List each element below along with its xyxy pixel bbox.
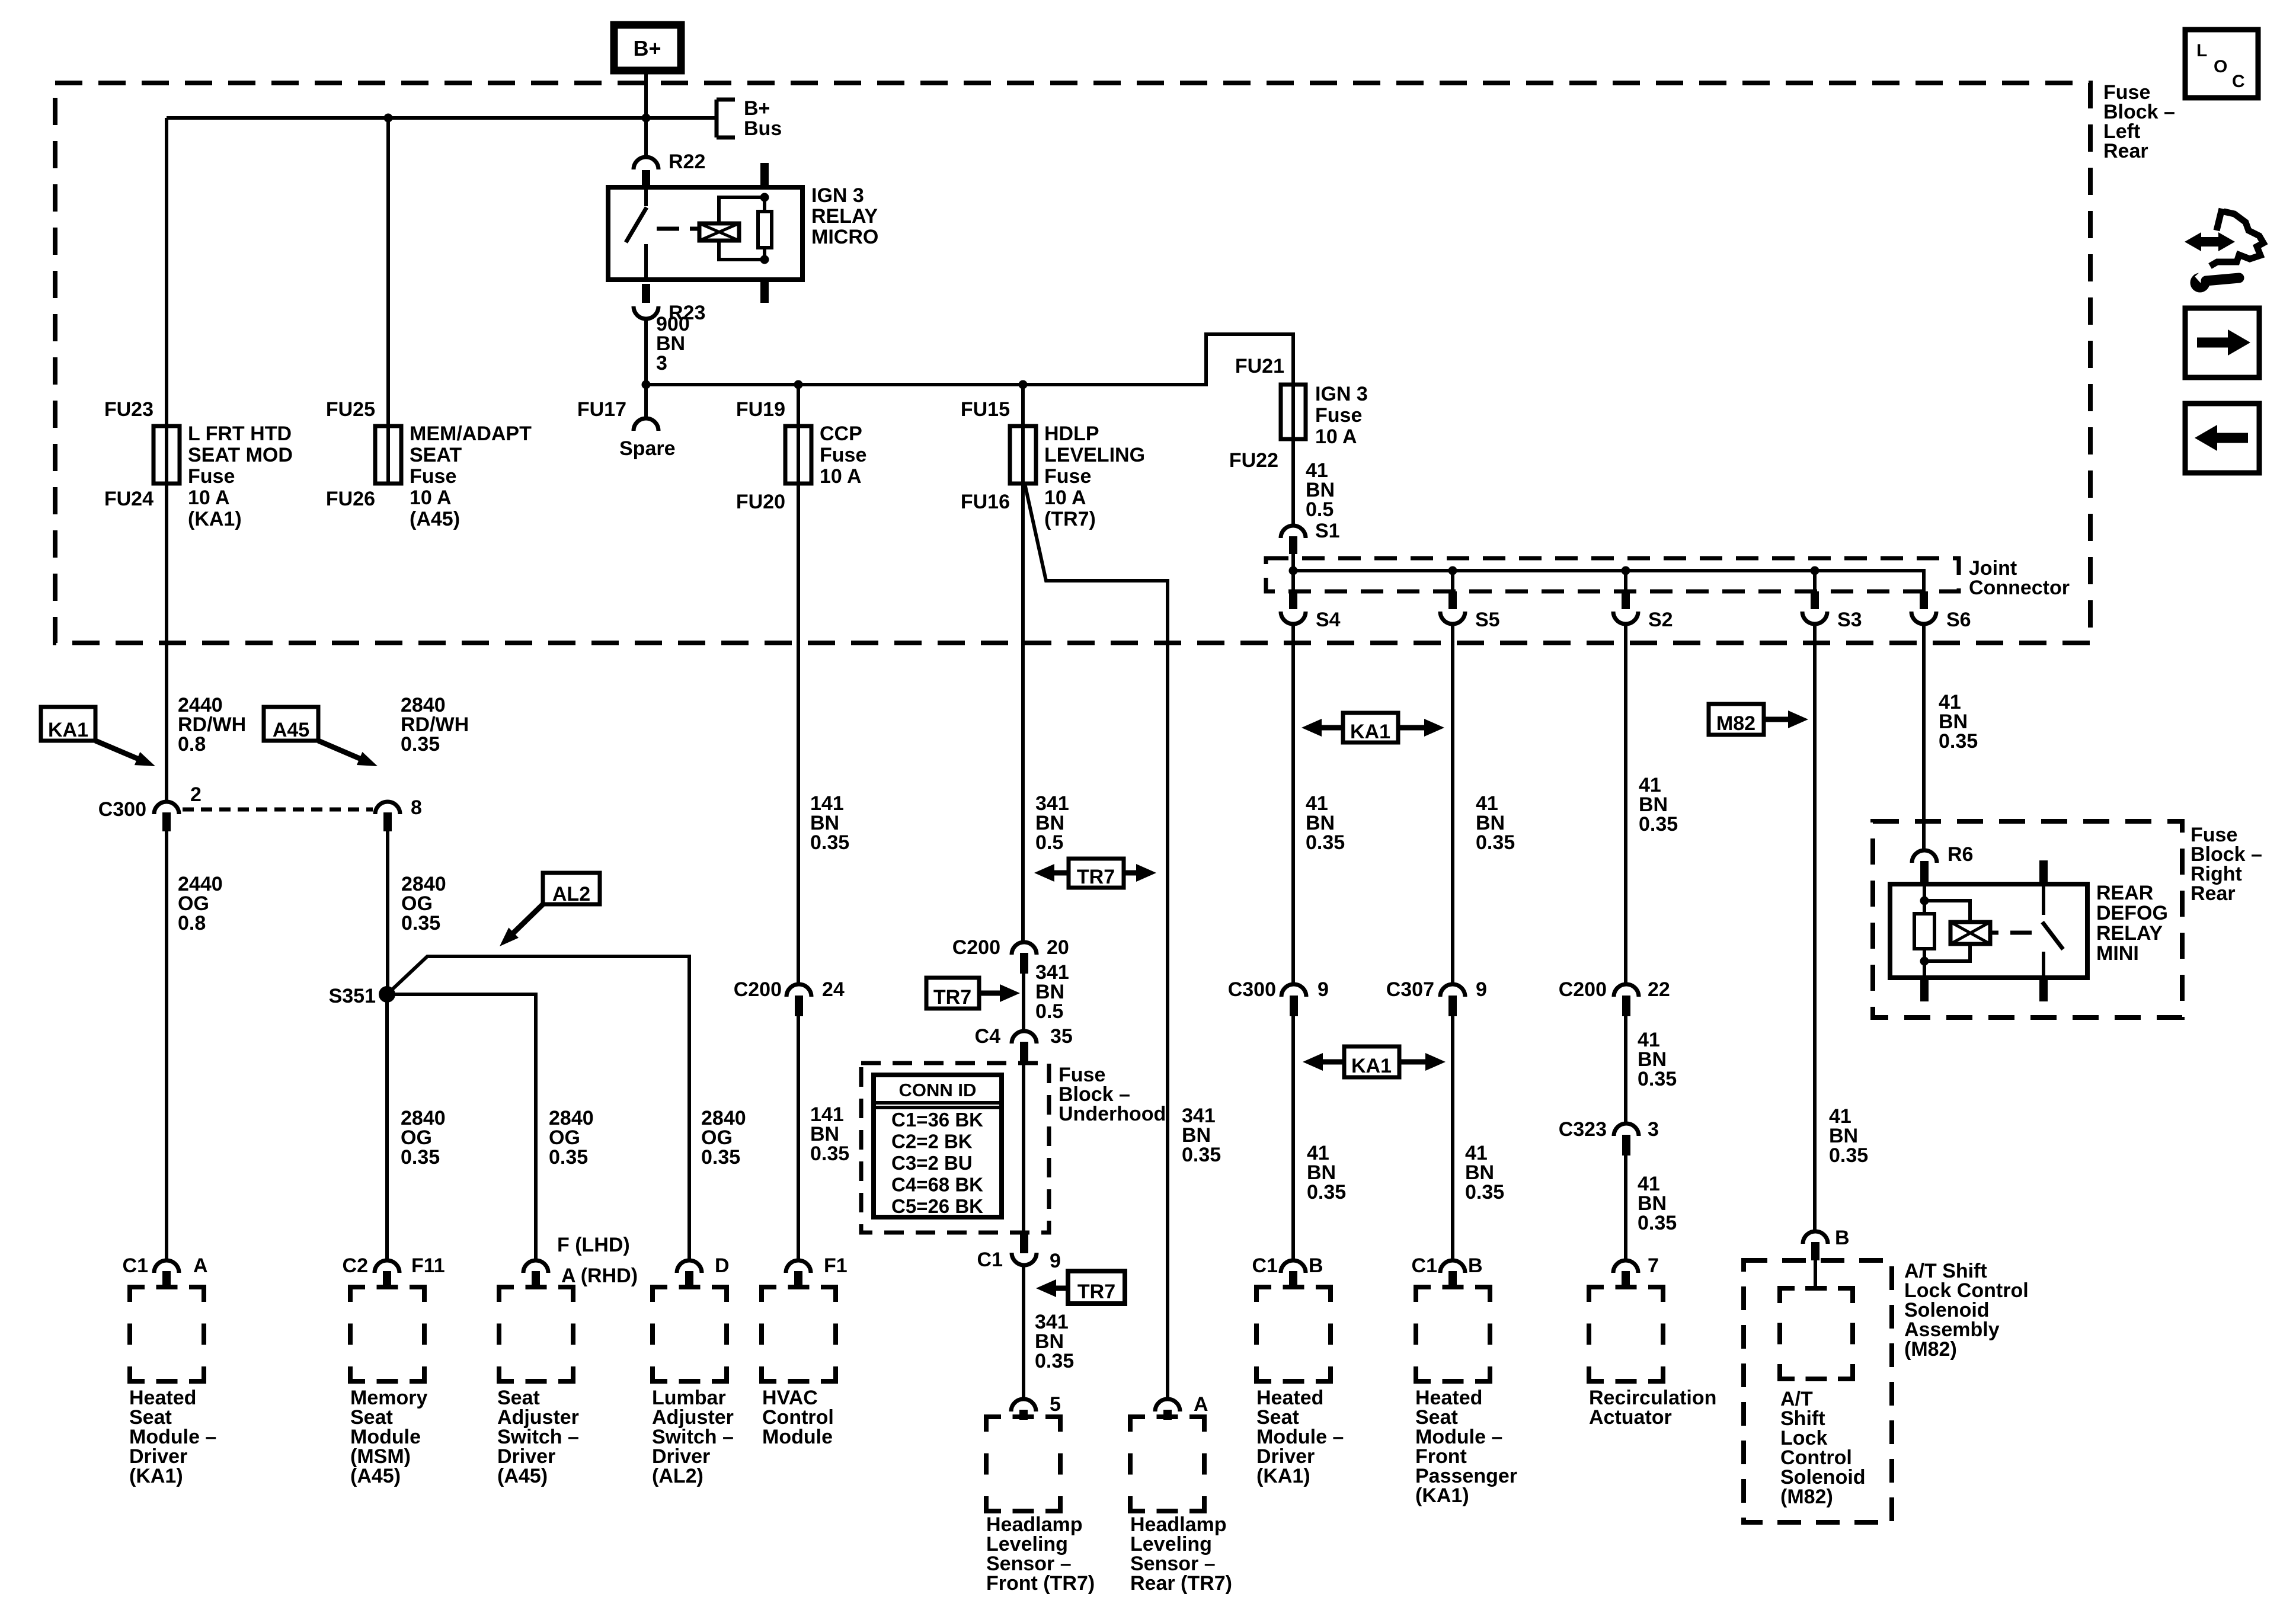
svg-text:0.35: 0.35 [401,912,440,934]
connector C200 pin 22 [1614,984,1639,1016]
svg-text:Rear (TR7): Rear (TR7) [1130,1572,1232,1595]
svg-text:S1: S1 [1315,520,1340,542]
wire S4 to C300-9 [1291,625,1295,984]
module box lumbar adjuster switch driver [653,1287,727,1381]
svg-text:(TR7): (TR7) [1044,508,1096,530]
svg-text:0.35: 0.35 [1306,831,1345,854]
svg-text:0.35: 0.35 [1638,1212,1677,1234]
svg-text:35: 35 [1050,1025,1073,1048]
label seat adjuster switch driver text [497,1387,579,1487]
svg-text:MICRO: MICRO [811,226,878,248]
wire label 900 BN 3 [656,313,690,375]
label Fuse Block - Left Rear [2103,81,2175,162]
svg-text:F1: F1 [824,1254,848,1277]
svg-text:FU19: FU19 [736,398,785,421]
svg-text:FU25: FU25 [326,398,375,421]
wire label 41 BN 0.35 s4 [1306,792,1345,854]
svg-text:D: D [715,1254,730,1277]
splice S3 [1802,571,1827,624]
fuse block right rear dashed box [1873,821,2182,1017]
svg-text:10 A: 10 A [410,486,452,509]
svg-text:C2: C2 [343,1254,368,1277]
svg-text:FU15: FU15 [961,398,1010,421]
svg-text:0.35: 0.35 [401,1146,440,1169]
svg-text:LEVELING: LEVELING [1044,444,1145,466]
relay IGN3 coil link dashes [657,227,699,231]
svg-text:2: 2 [190,783,202,806]
wire C200-20 to C4 [1022,974,1025,1030]
svg-text:(M82): (M82) [1780,1486,1833,1508]
svg-text:0.35: 0.35 [1465,1181,1504,1204]
svg-text:C200: C200 [1559,978,1607,1001]
callout TR7 right arrow [926,978,1020,1009]
svg-text:RELAY: RELAY [811,205,878,228]
relay IGN3 coil [699,223,739,241]
svg-text:9: 9 [1318,978,1329,1001]
svg-text:CONN ID: CONN ID [899,1080,977,1100]
connector seat adjuster switch driver [523,1260,548,1289]
label MEM/ADAPT SEAT Fuse 10 A (A45) [410,422,532,530]
relay rear defog coil loop [1924,901,1970,961]
svg-text:C200: C200 [952,936,1000,959]
svg-text:C200: C200 [734,978,782,1001]
svg-text:FU23: FU23 [104,398,154,421]
wire FU15 column top [1021,385,1025,484]
backward arrow box [2185,404,2259,473]
connector C1 pin 9 [1012,1233,1037,1265]
svg-text:M82: M82 [1716,712,1755,735]
svg-text:0.35: 0.35 [1829,1144,1868,1167]
svg-text:C1: C1 [123,1254,148,1277]
connector heated seat module front passenger [1440,1260,1465,1289]
wire label 41 BN 0.35 recirc [1638,1173,1677,1234]
relay IGN3 coil loop wires [719,197,765,260]
svg-text:IGN 3: IGN 3 [1315,383,1368,405]
svg-text:S3: S3 [1837,609,1862,631]
wire label 41 BN 0.35 c300 [1307,1142,1346,1204]
callout M82 arrow [1709,704,1808,735]
label at shift lock control solenoid inner [1780,1388,1866,1508]
svg-text:C4: C4 [975,1025,1001,1048]
svg-text:24: 24 [822,978,845,1001]
svg-text:Spare: Spare [619,437,676,460]
wire C307-9 to module [1451,1016,1454,1260]
svg-text:(KA1): (KA1) [188,508,242,530]
svg-text:0.5: 0.5 [1035,1000,1063,1023]
svg-text:Rear: Rear [2103,140,2148,162]
relay rear defog resistor branch [1914,884,1934,978]
svg-text:TR7: TR7 [1077,1281,1115,1303]
label hvac control module text [762,1387,834,1448]
connector Spare [634,385,658,431]
wire label 141 BN 0.35 lower [810,1103,849,1165]
fuse block underhood dashed box [861,1063,1049,1233]
svg-text:Underhood: Underhood [1059,1103,1166,1125]
splice S5 [1440,571,1465,624]
relay IGN3 resistor junctions [760,193,769,264]
connector S1 [1281,526,1306,554]
label Joint Connector [1969,557,2070,599]
svg-text:22: 22 [1648,978,1670,1001]
relay IGN3 switch [626,187,647,280]
svg-text:O: O [2214,57,2227,76]
connector lumbar adjuster switch driver [677,1260,702,1289]
splice S6 [1911,591,1936,624]
splice S4 [1281,571,1306,624]
svg-text:(KA1): (KA1) [1256,1465,1310,1487]
svg-text:HDLP: HDLP [1044,422,1099,445]
svg-text:0.35: 0.35 [401,733,440,756]
svg-text:(A45): (A45) [350,1465,401,1487]
svg-text:CCP: CCP [820,422,862,445]
svg-text:0.35: 0.35 [549,1146,588,1169]
svg-text:A: A [1194,1393,1208,1416]
svg-text:S4: S4 [1316,609,1341,631]
svg-text:B: B [1309,1254,1323,1277]
fuse FU15/FU16 HDLP LEVELING [1010,426,1036,484]
module box recirculation actuator [1589,1287,1663,1381]
wire S5 to C307-9 [1451,625,1454,984]
connector R6 [1912,850,1937,883]
svg-text:FU17: FU17 [577,398,626,421]
svg-text:A: A [193,1254,208,1277]
arrow KA1 double lower [1303,1046,1446,1077]
svg-text:C1: C1 [1252,1254,1278,1277]
label heated seat module driver text [129,1387,216,1487]
connector heated seat module driver [154,1260,179,1289]
svg-text:Fuse: Fuse [410,465,456,488]
module box heated seat module front passenger [1416,1287,1490,1381]
label memory seat module text [350,1387,427,1487]
svg-text:(AL2): (AL2) [652,1465,703,1487]
forward arrow box [2185,308,2259,377]
label Fuse Block - Right Rear [2191,824,2262,905]
svg-text:0.5: 0.5 [1306,498,1334,521]
svg-text:0.8: 0.8 [178,733,206,756]
wire label 141 BN 0.35 upper [810,792,849,854]
junction S3 [1811,566,1819,575]
CONN ID table [874,1075,1002,1217]
svg-text:SEAT MOD: SEAT MOD [188,444,293,466]
svg-text:Connector: Connector [1969,577,2070,599]
wire FU22 to S1 [1291,439,1295,525]
relay rear defog box [1890,884,2087,978]
module box seat adjuster switch driver [499,1287,573,1381]
relay rear defog terminal stub top [2039,860,2048,884]
svg-text:C1=36 BK: C1=36 BK [891,1109,983,1131]
callout KA1 [41,707,155,766]
svg-text:7: 7 [1648,1254,1659,1277]
connector A rear sensor [1155,1399,1180,1420]
module box heated seat module driver [130,1287,204,1381]
label IGN 3 RELAY MICRO [811,184,878,248]
svg-text:L: L [2196,41,2207,60]
svg-text:SEAT: SEAT [410,444,462,466]
svg-text:FU16: FU16 [961,491,1010,513]
svg-text:C4=68 BK: C4=68 BK [891,1174,983,1196]
svg-text:F (LHD): F (LHD) [557,1234,630,1256]
svg-text:RELAY: RELAY [2096,922,2163,945]
wire label 2440 OG 0.8 [178,873,223,934]
wire R23 to junction [644,320,648,385]
svg-text:10 A: 10 A [1315,425,1357,448]
svg-text:C5=26 BK: C5=26 BK [891,1195,983,1217]
wire pin8 to S351 [386,830,389,994]
module box memory seat module [350,1287,424,1381]
wire FU25 column top [386,118,390,484]
svg-text:B: B [1835,1227,1850,1249]
svg-text:10 A: 10 A [820,465,862,488]
top bus wire [167,116,717,120]
relay rear defog coil dash [1990,931,2032,935]
wire label 41 BN 0.35 mid2 [1638,1029,1677,1090]
connector C300 pin 2 [154,802,179,831]
connector hvac control module [786,1260,811,1289]
svg-text:KA1: KA1 [1351,1055,1392,1077]
svg-text:C323: C323 [1559,1118,1607,1141]
callout AL2 [500,873,600,946]
svg-text:C307: C307 [1386,978,1434,1001]
svg-text:Module: Module [762,1426,833,1448]
arrow KA1 double upper [1302,713,1444,743]
svg-text:C300: C300 [98,798,146,821]
svg-text:Actuator: Actuator [1589,1406,1672,1429]
svg-text:C300: C300 [1228,978,1276,1001]
relay rear defog switch [2042,884,2063,978]
connector 5 front sensor [1011,1399,1036,1420]
wire label 41 BN 0.5 [1306,459,1335,521]
callout TR7 left arrow [1036,1271,1125,1304]
relay rear defog terminal stub bottom right [2039,978,2048,1001]
splice S2 [1613,571,1638,624]
svg-text:FU20: FU20 [736,491,785,513]
wire label 41 BN 0.35 s6 [1939,691,1978,753]
label IGN 3 Fuse 10 A [1315,383,1368,448]
svg-text:3: 3 [656,352,667,375]
wire label 41 BN 0.35 c307 [1465,1142,1504,1204]
connector R23 [634,284,658,319]
label headlamp leveling sensor front [986,1513,1095,1595]
svg-text:FU26: FU26 [326,488,375,510]
arrow TR7 double [1034,859,1156,888]
wire S2 to C200-22 [1624,625,1627,984]
wire label 2840 OG 0.35 [401,873,446,934]
svg-text:20: 20 [1047,936,1069,959]
svg-text:0.8: 0.8 [178,912,206,934]
svg-text:Fuse: Fuse [820,444,866,466]
svg-text:0.35: 0.35 [1035,1350,1074,1372]
svg-text:0.35: 0.35 [1307,1181,1346,1204]
svg-text:C1: C1 [977,1249,1003,1271]
wire through underhood box [1022,1062,1025,1234]
svg-text:0.35: 0.35 [701,1146,740,1169]
svg-text:FU22: FU22 [1229,449,1278,472]
svg-text:B: B [1468,1254,1483,1277]
label lumbar adjuster switch driver text [652,1387,734,1487]
fuse FU25/FU26 MEM/ADAPT SEAT [375,426,401,484]
wire FU24 to C300-2 [165,484,168,801]
connector B at shift [1803,1231,1828,1260]
wire label 2840 OG 0.35 seat adj [549,1107,594,1169]
wire S351 down to C2 F11 [385,994,389,1260]
svg-text:FU21: FU21 [1235,355,1284,377]
wire C1-9 to sensor front [1022,1266,1025,1398]
junction FU19 [794,380,803,389]
connector memory seat module [375,1260,399,1289]
svg-text:B+: B+ [633,36,661,60]
svg-text:Fuse: Fuse [188,465,235,488]
fuse FU21/FU22 IGN 3 [1281,385,1306,439]
svg-text:10 A: 10 A [1044,486,1086,509]
svg-text:TR7: TR7 [1077,866,1115,888]
svg-text:9: 9 [1050,1250,1061,1272]
wire FU15 to C200-20 [1021,484,1025,942]
wire FU19 column top [797,385,800,484]
svg-text:IGN 3: IGN 3 [811,184,864,207]
svg-text:(KA1): (KA1) [129,1465,183,1487]
label at shift lock control solenoid assembly [1904,1260,2029,1361]
label L FRT HTD SEAT MOD Fuse 10 A (KA1) [188,422,293,530]
svg-text:KA1: KA1 [48,719,88,741]
label HDLP LEVELING Fuse 10 A (TR7) [1044,422,1145,530]
connector R22 [634,118,658,188]
wire label 2840 OG 0.35 lumbar [701,1107,746,1169]
svg-text:(A45): (A45) [410,508,460,530]
svg-text:DEFOG: DEFOG [2096,902,2168,924]
label heated seat module front passenger text [1415,1387,1517,1507]
svg-text:S351: S351 [329,985,376,1007]
wire FU20 to C200-24 [797,484,800,984]
LOC location box [2185,30,2258,98]
module box heated seat module driver right [1256,1287,1331,1381]
fuse FU19/FU20 CCP [785,426,811,484]
connector C200 pin 20 [1012,942,1037,974]
svg-text:S6: S6 [1946,609,1971,631]
wire C200-24 to F1 [797,1016,800,1260]
svg-text:0.35: 0.35 [1182,1144,1221,1166]
svg-text:KA1: KA1 [1350,721,1390,743]
wire FU23 column top [165,118,168,484]
svg-text:MINI: MINI [2096,942,2139,965]
module box hvac control module [762,1287,836,1381]
svg-text:Fuse: Fuse [1044,465,1091,488]
svg-text:9: 9 [1476,978,1487,1001]
connector recirculation actuator [1613,1260,1638,1289]
svg-text:S5: S5 [1475,609,1500,631]
relay rear defog terminal stub bottom left [1920,978,1929,1001]
svg-text:C1: C1 [1412,1254,1437,1277]
svg-text:Bus: Bus [744,117,782,140]
svg-text:0.35: 0.35 [1939,730,1978,753]
wire S351 branch to F/A [387,994,536,1260]
label heated seat module driver right text [1256,1387,1344,1487]
wire label 341 BN 0.35 rear [1182,1105,1221,1166]
svg-text:FU24: FU24 [104,488,154,510]
svg-text:(M82): (M82) [1904,1338,1957,1361]
svg-text:0.35: 0.35 [1638,1068,1677,1090]
junction at B+ [642,114,651,123]
svg-text:C3=2 BU: C3=2 BU [891,1152,973,1174]
dashed connector link C300 [183,808,373,812]
svg-text:MEM/ADAPT: MEM/ADAPT [410,422,532,445]
svg-text:3: 3 [1648,1118,1659,1141]
connector C4 pin 35 [1012,1031,1037,1062]
module box headlamp front [986,1417,1060,1511]
joint connector bus wire [1293,553,1924,593]
label Fuse Block - Underhood [1059,1064,1166,1125]
svg-text:(A45): (A45) [497,1465,548,1487]
wire label 2840 RD/WH 0.35 [401,694,469,756]
connector C300 pin 8 [375,802,400,831]
svg-text:S2: S2 [1648,609,1673,631]
wire C300-9 to module [1291,1016,1295,1260]
svg-text:(KA1): (KA1) [1415,1484,1469,1507]
svg-text:8: 8 [411,796,422,819]
wire label 41 BN 0.35 s3 [1829,1105,1868,1167]
wire label 41 BN 0.35 s5 [1476,792,1515,854]
fuse block left rear dashed border [55,83,2090,643]
diagnostic car/wrench icon [2185,209,2263,293]
wire label 41 BN 0.35 s2 [1639,774,1678,836]
junction at FU25 tap [384,114,393,123]
svg-text:L FRT HTD: L FRT HTD [188,422,292,445]
wire S351 branch to D [387,956,689,1260]
wire into solenoid [1805,1260,1826,1288]
relay IGN3 terminal 86 stub top [760,163,769,187]
wire C300-2 to heated seat module [165,830,168,1260]
junction FU15 [1019,380,1028,389]
svg-text:5: 5 [1050,1393,1061,1416]
svg-text:0.5: 0.5 [1035,831,1063,854]
svg-text:Fuse: Fuse [1315,404,1362,427]
svg-text:B+: B+ [744,97,770,120]
svg-text:TR7: TR7 [933,986,971,1009]
wire label 2440 RD/WH 0.8 [178,694,246,756]
svg-text:Rear: Rear [2191,882,2236,905]
battery B+ box [614,25,681,71]
B+ Bus bracket [717,97,782,140]
wire FU16 branch diagonal [1025,484,1168,1398]
relay U-IGN3 box [608,187,802,280]
distribution bus wire [646,334,1293,439]
splice S351 [379,986,395,1003]
relay IGN3 terminal 85 stub bottom [760,280,769,303]
wire C323-3 to recirc [1624,1156,1627,1260]
connector heated seat module driver right [1281,1260,1306,1289]
wire C200-22 to C323-3 [1624,1016,1627,1123]
relay rear defog junction top [1920,897,1929,905]
callout A45 [264,707,378,766]
at shift outer dashed box [1744,1260,1892,1522]
relay rear defog coil [1950,922,1990,944]
svg-text:F11: F11 [411,1254,445,1277]
wire label 341 BN 0.5 mid [1035,961,1069,1023]
relay rear defog junction bottom [1920,957,1929,966]
svg-text:R22: R22 [669,151,705,173]
wire S6 to R6 [1922,625,1926,850]
connector C300 pin 9 [1281,984,1306,1016]
wire B+ down [644,71,648,118]
svg-text:10 A: 10 A [188,486,230,509]
fuse FU23/FU24 L FRT HTD SEAT MOD [154,426,180,484]
wire label 341 BN 0.35 front [1035,1311,1074,1372]
at shift inner dashed box [1780,1288,1853,1379]
label headlamp leveling sensor rear [1130,1513,1232,1595]
svg-text:A45: A45 [273,719,309,741]
connector C323 pin 3 [1614,1124,1639,1156]
svg-text:0.35: 0.35 [1639,813,1678,836]
connector C307 pin 9 [1440,984,1465,1016]
